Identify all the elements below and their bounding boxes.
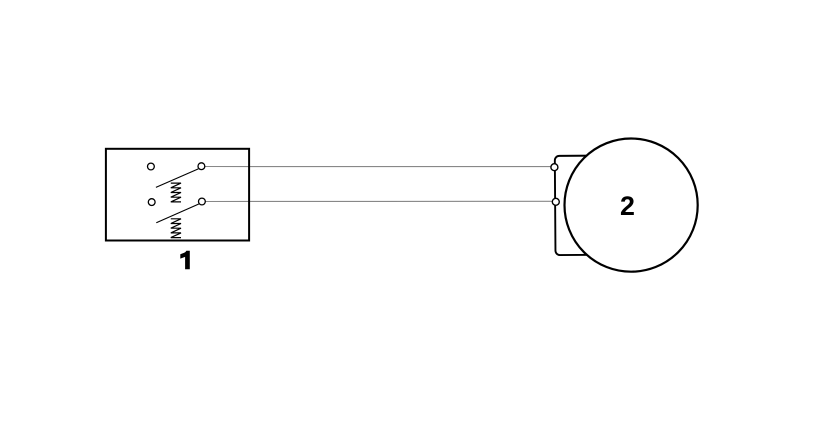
svg-text:2: 2 — [620, 191, 635, 221]
